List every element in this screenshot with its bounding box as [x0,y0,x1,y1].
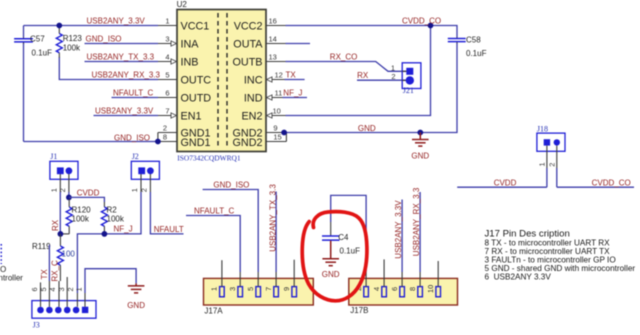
svg-text:OUTC: OUTC [181,74,212,86]
J17A pin numbers (rotated) [210,287,291,291]
svg-text:J17B: J17B [350,306,368,315]
svg-text:NFAULT_C: NFAULT_C [113,88,154,97]
svg-text:5: 5 [165,71,169,80]
connector J21 [391,63,421,95]
wire NFAULT_C to J17A.3 [186,216,240,273]
J17B pads [364,287,441,297]
svg-text:GND2: GND2 [233,137,263,149]
svg-text:OUTA: OUTA [233,38,263,50]
svg-text:12: 12 [275,71,283,80]
wire CVDD_CO (J18 pin2) [557,186,634,188]
wire GND1 pin8 stub [158,141,177,143]
svg-text:USB2ANY_3.3V: USB2ANY_3.3V [394,200,403,259]
svg-text:7: 7 [165,107,169,116]
J17A pads [220,287,297,297]
svg-text:USB2ANY_RX_3.3: USB2ANY_RX_3.3 [412,187,421,256]
ground symbol GND (J3) [128,283,145,293]
svg-text:CVDD_CO: CVDD_CO [592,179,631,188]
J17A pin stubs [222,260,294,287]
svg-text:13: 13 [269,53,277,62]
wire USB2ANY_TX_3.3 to INB pin4 [85,61,159,63]
svg-text:CVDD_CO: CVDD_CO [402,16,441,25]
svg-text:11: 11 [275,89,283,98]
svg-text:C57: C57 [30,35,45,44]
svg-text:R123: R123 [63,34,83,43]
svg-text:NF_J: NF_J [283,89,302,98]
wire CVDD to R2 [69,197,105,202]
node junction RX [58,231,64,237]
IC U2 ISO7342CQDWRQ1 isolator body [177,0,266,162]
wire USB2ANY_3.3V to VCC1 pin1 [24,25,159,27]
svg-text:0.1uF: 0.1uF [466,49,487,58]
svg-text:OUTD: OUTD [181,92,212,104]
svg-text:OUTB: OUTB [233,56,263,68]
svg-text:1: 1 [75,287,84,291]
svg-text:J2: J2 [132,152,139,161]
ground symbol GND (top right) [412,133,429,147]
svg-text:6 USB2ANY 3.3V: 6 USB2ANY 3.3V [485,273,552,282]
node junction GND_ISO pin8 [155,139,161,145]
svg-text:4: 4 [372,287,381,291]
wire J17B.2 to C4 [331,195,366,272]
capacitor C58 [448,36,487,59]
svg-text:USB2ANY_3.3V: USB2ANY_3.3V [87,16,146,25]
svg-text:0.1uF: 0.1uF [32,49,53,58]
svg-text:J21: J21 [403,86,414,95]
connector J18 [537,125,565,188]
svg-text:0.1uF: 0.1uF [340,247,361,256]
resistor R120 [60,199,91,234]
wire TX INC pin12 stub [266,79,285,81]
svg-text:GND1: GND1 [181,137,211,149]
J3 pin numbers (rotated) [30,287,83,291]
wire GND_ISO row [24,141,158,143]
wire C57 bottom to GND_ISO [23,43,25,142]
node junction NF_J [102,231,108,237]
J17B pin stubs [366,259,438,286]
wire GND2 pin15 stub [266,141,286,143]
svg-text:U2: U2 [177,0,188,9]
svg-text:GND: GND [411,152,429,161]
svg-text:USB2ANY_3.3V: USB2ANY_3.3V [95,106,154,115]
wire VCC2 pin16 to CVDD_CO and C58 [286,26,458,38]
svg-text:GND_ISO: GND_ISO [86,34,122,43]
svg-text:5: 5 [246,287,255,291]
svg-text:2: 2 [548,163,557,167]
svg-text:TX: TX [40,269,49,280]
svg-text:GND: GND [358,124,376,133]
svg-text:R120: R120 [72,205,92,214]
capacitor C4 [322,222,360,256]
ground symbol GND (C4) [322,241,339,266]
wire CVDD [457,186,547,188]
svg-text:9: 9 [273,124,277,133]
svg-text:USB2ANY_TX_3.3: USB2ANY_TX_3.3 [87,52,155,61]
J17B pin numbers (rotated) [354,285,435,293]
svg-text:2: 2 [58,188,67,192]
svg-text:10: 10 [426,285,435,293]
wire GND1 pin2 stub [158,132,177,134]
svg-text:10: 10 [273,107,281,116]
node junction USB2ANY_3.3V [56,23,62,29]
svg-text:3: 3 [228,287,237,291]
svg-text:15: 15 [273,133,281,142]
wire GND2 pin15 jog [285,133,287,142]
wire J1.1 to RX node [59,192,61,234]
wire USB2ANY_3.3V stub J17B.6 [401,200,403,273]
svg-text:R119: R119 [32,242,51,251]
node junction GND2 pins [281,130,287,136]
U2 pin names left [181,20,212,148]
svg-text:CVDD: CVDD [494,179,517,188]
svg-text:100k: 100k [72,215,90,224]
svg-text:TX: TX [286,71,297,80]
wire GND_ISO to INA pin3 [85,43,159,45]
resistor R119 [32,234,75,281]
dotted blue edge mark [0,244,2,264]
svg-text:INA: INA [181,38,200,50]
svg-text:J17A: J17A [204,307,223,316]
svg-text:2: 2 [66,287,75,291]
svg-text:GND_ISO: GND_ISO [114,134,150,143]
svg-text:1: 1 [49,188,58,192]
svg-text:EN2: EN2 [241,110,262,122]
connector J17A body [204,278,314,315]
svg-text:GND: GND [127,301,145,310]
node junction CVDD [66,195,72,201]
svg-text:VCC1: VCC1 [181,20,210,32]
svg-text:2: 2 [391,72,395,81]
wire TX stub (J3.5) [48,245,50,281]
svg-text:7: 7 [264,287,273,291]
svg-text:NF_J: NF_J [114,225,133,234]
wire USB2ANY_RX_3.3 stub J17B.8 [419,192,421,272]
wire RX to J21 pin2 [357,79,406,81]
wire NF_J IND pin11 stub [266,97,283,99]
node junction GND tap [417,130,423,136]
svg-text:C4: C4 [338,233,349,242]
J3 pin stubs [41,277,86,307]
svg-text:3: 3 [165,35,169,44]
svg-text:6: 6 [165,89,169,98]
svg-text:1: 1 [537,162,546,166]
svg-text:5: 5 [39,287,48,291]
svg-text:GND: GND [322,270,340,279]
svg-text:USB2ANY_RX_3.3: USB2ANY_RX_3.3 [92,70,161,79]
svg-text:3: 3 [57,287,66,291]
wire EN2 pin10 to CVDD_CO node [286,26,431,116]
wire NFAULT_C to OUTD pin6 [112,97,159,99]
svg-text:8: 8 [163,133,167,142]
wire GND1 pin2 jog [157,133,159,142]
svg-text:8: 8 [408,287,417,291]
J17 pin description text [485,228,636,281]
wire C58 bottom to GND row [284,43,457,133]
wire USB2ANY_RX_3.3 to OUTC pin5 [59,57,158,80]
svg-text:RX_C: RX_C [50,260,59,282]
red annotation ellipse around C4 [302,212,367,301]
svg-text:R2: R2 [107,205,118,214]
wire GND_ISO to J17A.5 [203,190,259,273]
svg-text:16: 16 [269,17,277,26]
node junction CVDD_CO [428,23,434,29]
svg-text:4: 4 [48,287,57,291]
U2 pin numbers left [163,17,170,142]
svg-text:ntroller: ntroller [0,273,23,282]
svg-text:ISO7342CQDWRQ1: ISO7342CQDWRQ1 [177,154,241,163]
wire USB2ANY_TX_3.3 stub J17A.7 [275,192,277,273]
capacitor C57 [14,35,52,58]
svg-text:NFAULT_C: NFAULT_C [194,206,235,215]
svg-text:9: 9 [282,287,291,291]
svg-text:4: 4 [165,53,169,62]
svg-text:RX_CO: RX_CO [330,53,358,62]
svg-text:14: 14 [269,35,277,44]
resistor R2 [101,202,124,234]
resistor R123 [56,26,82,58]
wire USB2ANY_3.3V to EN1 pin7 [94,115,159,117]
svg-text:CVDD: CVDD [77,188,100,197]
wire OUTA pin14 stub [286,43,311,45]
wire GND2 pin9 stub [266,132,284,134]
U2 pin names right [233,20,264,148]
svg-text:J1: J1 [50,152,57,161]
U2 pin leads [158,26,286,116]
svg-text:GND_ISO: GND_ISO [213,180,249,189]
svg-text:C58: C58 [466,36,481,45]
svg-text:USB2ANY_TX_3.3: USB2ANY_TX_3.3 [269,184,278,252]
U2 input pin arrows [171,41,272,118]
svg-text:NFAULT: NFAULT [154,225,184,234]
wire RX_CO OUTB pin13 to J21 pin1 [286,62,407,72]
svg-text:J3: J3 [33,321,40,330]
svg-text:IND: IND [244,92,263,104]
svg-text:2: 2 [140,188,149,192]
wire J1.2 to CVDD node [68,192,70,197]
connector J1 [49,152,78,192]
wire NF_J net [77,192,141,293]
wire C57 top [23,26,25,38]
U2 pin numbers right [269,17,283,142]
svg-text:1: 1 [210,287,219,291]
svg-text:INB: INB [181,56,199,68]
svg-text:RX: RX [51,219,60,231]
svg-text:INC: INC [244,74,263,86]
svg-text:6: 6 [30,287,39,291]
wire NFAULT (J2.2) [150,192,183,234]
connector J17B body [349,278,458,315]
svg-text:2: 2 [163,124,167,133]
svg-text:100: 100 [62,250,76,259]
svg-text:VCC2: VCC2 [234,20,263,32]
svg-text:100k: 100k [63,44,81,53]
connector J3 [32,301,96,330]
svg-text:6: 6 [390,287,399,291]
svg-text:1: 1 [165,17,169,26]
svg-text:1: 1 [130,188,139,192]
connector J2 [130,152,159,192]
wire J3.1 to GND [85,269,136,293]
svg-text:RX: RX [357,71,369,80]
svg-text:EN1: EN1 [181,110,202,122]
svg-text:J18: J18 [537,125,548,134]
svg-text:100k: 100k [107,215,125,224]
